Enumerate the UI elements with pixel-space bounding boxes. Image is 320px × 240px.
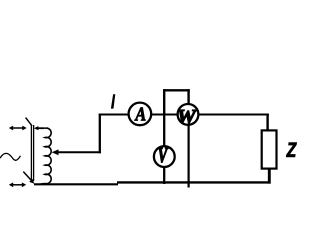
load Z box (262, 130, 277, 168)
label I (111, 94, 115, 108)
wire wattmeter to load corner (198, 113, 268, 115)
core bar (double line) (31, 125, 33, 181)
adjustment arrow top (9, 126, 27, 131)
wire ammeter to wattmeter (151, 113, 177, 115)
winding coils (41, 128, 51, 184)
top diagonal lead (26, 118, 32, 126)
load to bottom wire (268, 169, 271, 184)
AC source sine (0, 153, 21, 160)
wiper arrow into winding (52, 149, 101, 155)
bottom wire left segment (34, 183, 118, 185)
ammeter U1 circle (129, 103, 152, 126)
wattmeter bottom lead (188, 125, 190, 188)
wire down to voltmeter (163, 115, 165, 148)
voltmeter U3 circle (154, 146, 175, 167)
ammeter letter A (135, 108, 146, 121)
wattmeter letter W (178, 110, 197, 123)
adjustment arrow bottom (9, 182, 26, 187)
wattmeter U2 circle (178, 104, 199, 125)
label Z (286, 143, 296, 157)
voltmeter to bottom wire (163, 167, 165, 185)
voltmeter letter V (159, 148, 169, 163)
bottom diagonal lead with arrowhead (23, 172, 34, 184)
bottom wire right segment (117, 181, 270, 183)
top tap arrow into bar (34, 126, 45, 130)
corner down to load (266, 114, 268, 131)
riser wire (99, 114, 101, 154)
wire riser to ammeter (99, 113, 129, 115)
wattmeter current-coil loop (163, 89, 190, 114)
